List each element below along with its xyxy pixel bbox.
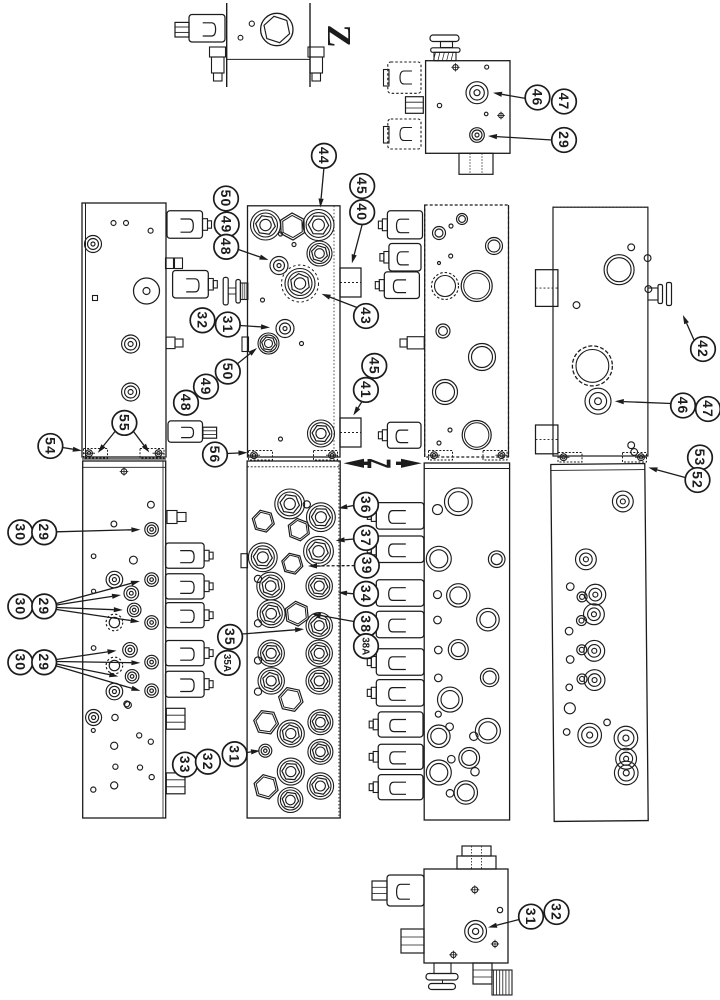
callout 47 xyxy=(552,89,577,114)
hex port xyxy=(277,720,304,747)
port xyxy=(145,684,159,698)
hole xyxy=(111,221,116,226)
svg-text:32: 32 xyxy=(200,753,216,771)
svg-text:48: 48 xyxy=(178,394,194,412)
port xyxy=(106,571,123,588)
section view Z plate left edge xyxy=(226,3,228,87)
callout 29 xyxy=(552,128,577,153)
stub bank2 left lower xyxy=(241,554,248,568)
port xyxy=(575,549,596,570)
relief block body xyxy=(426,61,510,154)
hex port xyxy=(307,241,332,266)
svg-text:55: 55 xyxy=(116,414,132,432)
svg-text:42: 42 xyxy=(695,340,711,358)
callout 44 xyxy=(312,144,337,169)
bank3 lower body xyxy=(424,463,509,820)
port xyxy=(488,551,505,568)
hole xyxy=(148,739,153,744)
callout 29 row1 xyxy=(32,520,57,545)
hole xyxy=(92,589,96,593)
hole xyxy=(149,775,154,780)
leader 48 a xyxy=(238,250,260,258)
callout 42 xyxy=(691,337,716,362)
svg-text:50: 50 xyxy=(220,363,236,381)
port xyxy=(566,583,574,591)
port xyxy=(433,505,443,515)
callout 49 b xyxy=(194,374,219,399)
block item 40 xyxy=(340,268,361,297)
hex port xyxy=(307,773,333,799)
hex port xyxy=(306,613,332,639)
leader 29 row2 d xyxy=(57,610,131,621)
solenoid bank3 u1 xyxy=(387,211,422,239)
port xyxy=(426,760,451,785)
solenoid b1 l5 xyxy=(166,671,205,697)
callout 52 xyxy=(685,468,710,493)
section view Z plate right edge xyxy=(309,3,311,87)
svg-text:38A: 38A xyxy=(360,637,371,655)
port xyxy=(145,616,159,630)
hex port xyxy=(306,573,332,599)
callout 50 b xyxy=(216,359,241,384)
hex port xyxy=(257,572,285,600)
svg-text:52: 52 xyxy=(690,471,706,489)
svg-text:Z: Z xyxy=(320,25,357,48)
solenoid lower left xyxy=(388,119,421,149)
svg-text:47: 47 xyxy=(700,400,716,418)
tab hole xyxy=(254,688,261,695)
hex port xyxy=(306,668,332,694)
pilot block body xyxy=(424,869,508,963)
svg-text:33: 33 xyxy=(177,756,193,774)
callout 37 xyxy=(354,526,379,551)
hex port xyxy=(307,503,336,532)
port xyxy=(434,616,442,624)
callout 48 a xyxy=(214,235,239,260)
hole xyxy=(113,764,118,769)
hole xyxy=(112,714,118,720)
knob thread xyxy=(434,52,456,60)
svg-text:45: 45 xyxy=(354,177,370,195)
hole xyxy=(437,441,441,445)
hole xyxy=(628,442,635,449)
hex plain xyxy=(281,213,305,240)
hole xyxy=(124,701,130,707)
bank4 foot right xyxy=(623,453,647,463)
hole xyxy=(448,428,452,432)
port circle xyxy=(261,13,293,45)
solenoid bank1 top xyxy=(167,211,203,239)
callout 54 xyxy=(38,434,63,459)
svg-text:45: 45 xyxy=(366,357,382,375)
leader 55 left xyxy=(103,432,115,446)
callout 32 mid xyxy=(190,308,215,333)
leader 35 xyxy=(242,630,295,634)
leader 31 bottom xyxy=(497,920,519,926)
port xyxy=(122,335,140,353)
hex port xyxy=(258,333,279,354)
leader 46 xyxy=(502,94,526,98)
port xyxy=(86,710,102,726)
bank2 upper body xyxy=(248,206,341,457)
port dashed xyxy=(106,614,123,631)
port xyxy=(124,586,139,601)
hex plug xyxy=(254,711,279,734)
port xyxy=(469,344,496,371)
callout 40 xyxy=(350,200,375,225)
port xyxy=(566,656,574,664)
hole xyxy=(644,255,651,262)
callout 31 mid xyxy=(216,312,241,337)
svg-text:31: 31 xyxy=(220,316,236,334)
bank3 foot right xyxy=(483,451,507,461)
port xyxy=(436,324,450,338)
port 48 xyxy=(270,257,288,275)
leader 29 row2 c xyxy=(57,608,114,610)
callout 47 b xyxy=(696,397,720,422)
port xyxy=(565,627,573,635)
port xyxy=(122,383,140,401)
solenoid bank3 u4 xyxy=(387,422,421,448)
port xyxy=(434,591,442,599)
solenoid b1 l3 xyxy=(166,603,205,628)
callout 43 xyxy=(354,304,379,329)
hole xyxy=(91,728,95,732)
svg-text:32: 32 xyxy=(549,903,565,921)
plug stub bank1 xyxy=(166,337,175,349)
svg-text:36: 36 xyxy=(358,496,374,514)
hex port xyxy=(278,788,303,813)
port xyxy=(435,674,443,682)
bolt hole xyxy=(472,887,478,893)
port xyxy=(145,573,159,587)
bank4 foot left xyxy=(558,453,582,463)
left solenoid xyxy=(387,875,424,906)
svg-text:30: 30 xyxy=(12,653,28,671)
top fitting xyxy=(457,856,496,869)
leader 29 row3 d xyxy=(57,666,132,688)
bottom knob disc2 xyxy=(429,984,456,990)
hex port xyxy=(308,739,333,764)
svg-text:34: 34 xyxy=(358,585,374,603)
callout 31 low xyxy=(222,742,247,767)
knob disc xyxy=(431,48,460,53)
svg-text:35A: 35A xyxy=(221,654,232,672)
section marker arrow right xyxy=(401,459,422,468)
port xyxy=(438,687,463,712)
leader 56 xyxy=(227,452,239,455)
hole xyxy=(91,646,96,651)
block bank4 left up xyxy=(536,270,558,307)
leader 29 row3 c xyxy=(57,664,110,675)
solenoid b3 m3 xyxy=(378,775,423,800)
callout 34 xyxy=(354,582,379,607)
port 46-47 xyxy=(585,388,611,414)
port xyxy=(585,584,606,605)
callout 50 a xyxy=(214,186,239,211)
callout 38A xyxy=(354,634,379,659)
hex fitting 33b xyxy=(166,773,185,794)
solenoid upper left xyxy=(388,62,421,93)
hex fitting left xyxy=(406,97,424,114)
svg-text:54: 54 xyxy=(42,437,58,455)
port xyxy=(584,670,605,691)
leader 29 xyxy=(497,137,552,140)
hole xyxy=(492,941,497,946)
port xyxy=(106,683,123,700)
solenoid b1 l2 xyxy=(166,574,205,599)
port xyxy=(475,718,500,743)
solenoid bank1 bottom xyxy=(168,421,203,442)
plug stub xyxy=(167,511,177,524)
callout 49 a xyxy=(214,212,239,237)
callout 41 xyxy=(354,378,379,403)
solenoid b3 l5 xyxy=(376,649,424,676)
svg-text:Z: Z xyxy=(360,458,398,468)
callout 46 b xyxy=(671,393,696,418)
bank1 upper body xyxy=(82,203,166,457)
solenoid b3 l4 xyxy=(376,611,424,638)
big port xyxy=(461,271,492,302)
port xyxy=(454,781,477,804)
hole xyxy=(111,521,117,527)
port xyxy=(577,645,587,655)
leader 55 right xyxy=(134,432,144,446)
hole xyxy=(645,286,652,293)
svg-text:44: 44 xyxy=(316,147,332,165)
big port 46 xyxy=(572,346,612,386)
plug item 31-32 xyxy=(223,277,228,305)
solenoid hex end xyxy=(175,22,189,37)
bolt hole xyxy=(499,113,504,118)
svg-text:56: 56 xyxy=(207,446,223,464)
port xyxy=(435,646,443,654)
bank2 foot left xyxy=(249,451,273,461)
svg-text:37: 37 xyxy=(358,529,374,547)
svg-text:49: 49 xyxy=(198,378,214,396)
leader 31 low xyxy=(247,751,251,754)
svg-text:29: 29 xyxy=(556,131,572,149)
port xyxy=(577,592,587,602)
callout 45 top xyxy=(350,174,375,199)
port xyxy=(447,584,470,607)
port xyxy=(470,732,478,740)
callout 32 low xyxy=(196,749,221,774)
hole xyxy=(111,742,118,749)
port xyxy=(576,616,586,626)
port xyxy=(616,748,637,769)
tab hole xyxy=(254,620,261,627)
callout 36 xyxy=(354,493,379,518)
hex port xyxy=(308,420,335,447)
hole xyxy=(497,907,502,912)
callout 56 xyxy=(203,442,228,467)
svg-text:31: 31 xyxy=(227,745,243,763)
hex plug xyxy=(279,688,303,712)
mount foot right xyxy=(308,47,324,57)
port xyxy=(614,761,638,785)
callout 38 xyxy=(354,612,379,637)
callout 39 xyxy=(355,553,380,578)
bolt hole xyxy=(437,103,441,107)
bank2 lower body xyxy=(247,461,340,818)
section marker arrow left xyxy=(344,459,365,468)
bolt heads xyxy=(166,258,174,269)
svg-text:29: 29 xyxy=(36,653,52,671)
hole xyxy=(125,702,132,709)
solenoid b3 l2 xyxy=(376,536,424,563)
hole xyxy=(91,787,96,792)
bottom knob stem xyxy=(434,963,451,974)
leader 44 xyxy=(321,168,324,198)
svg-text:46: 46 xyxy=(530,89,546,107)
port xyxy=(564,703,575,714)
item 42 fitting xyxy=(648,288,658,300)
hole xyxy=(148,228,153,233)
hole xyxy=(438,262,441,265)
bottom fitting xyxy=(459,153,493,174)
hex plug xyxy=(282,553,303,574)
port xyxy=(486,238,503,255)
port xyxy=(471,768,479,776)
bolt hole xyxy=(484,112,488,116)
port xyxy=(614,726,638,750)
hex port 44 xyxy=(303,210,334,241)
leader 31 mid xyxy=(240,326,261,327)
leader 29 row3 a xyxy=(57,652,108,660)
block item 41 xyxy=(340,418,361,447)
port xyxy=(477,608,500,631)
svg-text:50: 50 xyxy=(218,190,234,208)
svg-text:40: 40 xyxy=(354,203,370,221)
bolt hole xyxy=(485,65,489,69)
hole xyxy=(148,501,155,508)
port xyxy=(123,643,138,658)
hex port xyxy=(306,640,332,666)
port xyxy=(604,719,611,726)
solenoid bank1 mid xyxy=(173,271,209,299)
solenoid bank3 u3 xyxy=(384,272,419,299)
hole xyxy=(279,437,283,441)
port xyxy=(563,729,570,736)
leader 38 xyxy=(321,616,354,622)
svg-text:53: 53 xyxy=(692,449,708,467)
small hole xyxy=(238,35,243,40)
port xyxy=(459,748,480,769)
hex port xyxy=(258,640,284,666)
port xyxy=(433,227,446,240)
port xyxy=(578,723,602,747)
hex plug xyxy=(286,601,309,626)
bottom knob disc xyxy=(426,974,458,981)
block bank4 left low xyxy=(536,425,558,454)
callout 35 xyxy=(218,625,243,650)
port 29a xyxy=(145,523,159,537)
hex plug xyxy=(288,518,309,540)
leader 29 row2 a xyxy=(57,583,132,603)
hex nub xyxy=(203,427,217,438)
hole xyxy=(573,302,580,309)
port xyxy=(612,491,633,512)
solenoid side view xyxy=(189,15,225,43)
solenoid b3 l3 xyxy=(376,580,424,607)
hex plug xyxy=(254,775,278,799)
leader 39 xyxy=(317,565,355,567)
callout 45 mid xyxy=(362,354,387,379)
leader 52 xyxy=(657,470,687,478)
svg-text:29: 29 xyxy=(36,598,52,616)
port dashed xyxy=(432,273,459,300)
port xyxy=(446,723,454,731)
left hex fitting xyxy=(401,929,424,953)
stub bank2 left xyxy=(242,337,249,352)
svg-text:38: 38 xyxy=(358,615,374,633)
leader 41 xyxy=(358,402,362,408)
callout 29 row2 xyxy=(32,594,57,619)
leader 42 xyxy=(687,323,694,340)
svg-text:35: 35 xyxy=(222,628,238,646)
leader 29 row2 b xyxy=(57,596,113,605)
callout 31 bottom xyxy=(519,904,544,929)
hex port xyxy=(248,543,277,572)
port xyxy=(457,214,468,225)
hex port xyxy=(257,600,285,628)
stub bank3 left xyxy=(407,337,424,349)
port xyxy=(583,604,604,625)
hole xyxy=(449,224,453,228)
solenoid bank3 u2 xyxy=(389,244,421,272)
knob cap xyxy=(430,35,459,42)
solenoid b3 l1 xyxy=(376,503,424,529)
bank3 foot left xyxy=(429,451,453,461)
tab hole xyxy=(254,575,261,582)
port xyxy=(480,668,498,686)
port xyxy=(465,921,487,943)
port xyxy=(577,674,587,684)
bolt xyxy=(121,469,127,475)
hex port xyxy=(304,536,334,566)
svg-text:32: 32 xyxy=(195,311,211,329)
callout 32 bottom xyxy=(544,900,569,925)
leader 34 xyxy=(347,592,354,595)
port xyxy=(445,488,473,516)
solenoid b1 l1 xyxy=(166,543,205,568)
callout 33 xyxy=(173,752,198,777)
bolt hole xyxy=(453,65,458,70)
leader 29 row1 xyxy=(57,530,132,532)
port dashed xyxy=(106,657,123,674)
hole sq xyxy=(93,296,98,301)
solenoid b1 l4 xyxy=(166,641,205,666)
port xyxy=(428,725,451,748)
hex port xyxy=(275,489,305,519)
leader 50 b xyxy=(237,354,251,365)
bank4 upper body xyxy=(553,207,648,456)
bottom right hex xyxy=(473,963,492,984)
tab hole xyxy=(303,501,310,508)
svg-text:30: 30 xyxy=(12,523,28,541)
port xyxy=(446,790,454,798)
hex port xyxy=(277,758,304,785)
leader 36 xyxy=(347,506,354,507)
svg-text:39: 39 xyxy=(359,557,375,575)
hole xyxy=(111,782,118,789)
mount foot left xyxy=(210,47,226,57)
port xyxy=(85,236,102,253)
hole xyxy=(130,556,138,564)
bank1 lower body xyxy=(83,461,166,818)
callout 30 row3 xyxy=(8,650,33,675)
